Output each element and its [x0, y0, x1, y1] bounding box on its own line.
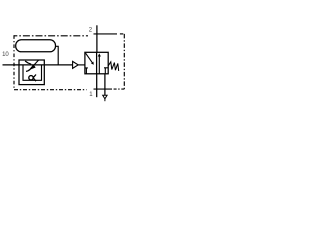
- throttle lower arc: [26, 66, 33, 71]
- pilot triangle: [73, 61, 79, 68]
- return spring: [108, 62, 119, 71]
- check valve C1: [29, 76, 33, 80]
- valve left box blocked port: [85, 68, 88, 74]
- enclosure dash-dot frame top border left segment: [14, 35, 88, 37]
- port 1 line: [96, 74, 98, 97]
- port 3 line: [104, 74, 106, 95]
- exhaust symbol: [103, 95, 107, 99]
- wire bypass loop: [23, 65, 42, 80]
- air reservoir: [16, 40, 56, 52]
- svg-text:10: 10: [2, 52, 9, 58]
- valve right box blocked port: [104, 68, 108, 74]
- wire reservoir to pilot line: [55, 46, 58, 65]
- valve right box flow path 1-2: [98, 56, 100, 73]
- throttle upper arc: [25, 61, 31, 64]
- wire pilot to valve: [78, 64, 85, 66]
- throttle adjustment arrow: [31, 60, 39, 69]
- port 2 line: [96, 25, 98, 52]
- flow control valve box: [19, 60, 44, 85]
- valve left box flow path 2-3: [86, 53, 93, 63]
- enclosure left border: [13, 35, 15, 90]
- valve divider: [96, 52, 98, 74]
- enclosure right border: [123, 34, 125, 89]
- valve V1 body: [85, 52, 108, 74]
- enclosure bottom border: [14, 89, 87, 91]
- enclosure dash-dot frame top border right segment: [94, 33, 118, 35]
- pilot line (port 10): [3, 64, 73, 66]
